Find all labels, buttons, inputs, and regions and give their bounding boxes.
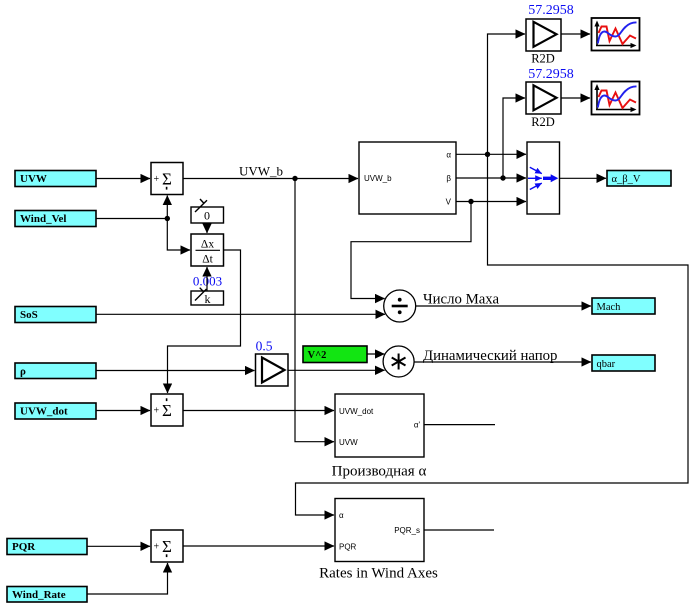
outport tag qbar <box>592 355 655 371</box>
wire alpha-dot open end <box>424 424 495 426</box>
inport tag SoS <box>15 307 96 323</box>
svg-text:qbar: qbar <box>597 359 616 370</box>
svg-text:α_β_V: α_β_V <box>612 174 641 185</box>
svg-text:Δt: Δt <box>202 254 213 266</box>
wire DxDt to Sum2 top <box>168 250 241 393</box>
svg-text:ρ: ρ <box>20 366 26 378</box>
svg-text:UVW_dot: UVW_dot <box>20 406 68 418</box>
wire UVW_dot to Sum2 <box>96 410 150 412</box>
svg-text:Rates in Wind Axes: Rates in Wind Axes <box>319 566 438 582</box>
svg-text:V^2: V^2 <box>308 350 327 361</box>
wire product to qbar <box>414 361 591 363</box>
wire rho to gain 0.5 <box>96 370 255 372</box>
svg-text:Wind_Vel: Wind_Vel <box>20 213 66 225</box>
wire Wind_Vel trunk <box>96 218 167 220</box>
svg-text:UVW_b: UVW_b <box>364 174 392 183</box>
wire SoS to divide <box>96 313 385 315</box>
svg-text:57.2958: 57.2958 <box>528 67 574 82</box>
from tag V^2 <box>303 346 367 363</box>
svg-text:Σ: Σ <box>162 170 172 189</box>
inport tag UVW_dot <box>15 403 96 419</box>
wire k to DxDt <box>206 267 208 291</box>
svg-text:k: k <box>205 292 211 306</box>
inport tag PQR <box>7 539 87 555</box>
svg-text:β: β <box>446 174 451 183</box>
wire Sum1 to UVW_b subsystem <box>183 178 358 180</box>
inport tag Wind_Vel <box>15 211 96 227</box>
svg-text:UVW_b: UVW_b <box>239 164 283 179</box>
wire gain1 to scope1 <box>561 33 590 35</box>
svg-text:0: 0 <box>204 208 210 222</box>
svg-text:α: α <box>339 511 344 520</box>
subsystem Derivative (Proizvodnaya alpha) <box>335 394 424 457</box>
wire IC to DxDt <box>206 223 208 233</box>
svg-text:0.5: 0.5 <box>256 339 273 354</box>
slider gain block k <box>191 288 224 306</box>
svg-text:57.2958: 57.2958 <box>528 3 574 18</box>
svg-text:Wind_Rate: Wind_Rate <box>12 589 66 601</box>
inport tag UVW <box>15 171 96 187</box>
junction beta <box>500 175 505 180</box>
inport tag rho <box>15 363 96 379</box>
subsystem UVW_b <box>359 142 456 214</box>
wire beta out to mux <box>456 177 526 179</box>
inport tag Wind_Rate <box>7 587 87 603</box>
wire alpha long route to Rates subsystem <box>296 154 689 515</box>
junction alpha <box>485 152 490 157</box>
wire V branch to divide <box>351 202 471 299</box>
wire Sum2 to Derivative subsystem <box>183 410 334 412</box>
svg-text:Σ: Σ <box>162 537 172 556</box>
gain R2D bottom <box>526 82 561 114</box>
subsystem Rates in Wind Axes <box>335 499 424 562</box>
svg-text:PQR: PQR <box>339 542 357 551</box>
svg-text:V: V <box>446 198 452 207</box>
svg-text:Mach: Mach <box>597 302 622 313</box>
wire UVW_b branch to Derivative subsystem UVW input <box>295 179 334 442</box>
wire mux to outport <box>560 177 607 179</box>
sum block Sum3 <box>151 530 183 562</box>
svg-text:R2D: R2D <box>531 52 555 66</box>
sum block Sum1 <box>151 163 183 195</box>
wire Sum3 to Rates subsystem <box>183 545 334 547</box>
svg-text:Σ: Σ <box>162 401 172 420</box>
svg-text:Число Маха: Число Маха <box>423 292 500 308</box>
svg-text:UVW_dot: UVW_dot <box>339 407 374 416</box>
svg-text:Δx: Δx <box>201 238 214 250</box>
sum block Sum2 <box>151 394 183 426</box>
wire gain2 to scope2 <box>561 97 590 99</box>
wire UVW to Sum1 <box>96 178 150 180</box>
wire divide to Mach <box>416 305 591 307</box>
junction V <box>468 199 473 204</box>
junction UVW_b <box>292 176 297 181</box>
outport tag alpha_beta_V <box>607 171 671 187</box>
wire Wind_Vel to DxDt <box>167 219 190 251</box>
wire gain 0.5 to product <box>288 369 385 371</box>
wire beta up to R2D gain2 <box>503 98 525 178</box>
svg-text:α': α' <box>414 421 421 430</box>
wire Wind_Vel to Sum1 bottom <box>166 196 168 219</box>
svg-text:+: + <box>154 406 160 417</box>
outport tag Mach <box>592 298 655 314</box>
svg-text:Производная α: Производная α <box>332 464 427 480</box>
wire V out to mux <box>456 201 526 203</box>
wire PQR to Sum3 <box>87 545 150 547</box>
svg-text:PQR_s: PQR_s <box>394 526 420 535</box>
svg-text:+: + <box>154 542 160 553</box>
divide block <box>384 290 416 322</box>
svg-text:R2D: R2D <box>531 115 555 129</box>
wire PQR_s open end <box>424 529 494 531</box>
svg-text:+: + <box>154 174 160 185</box>
svg-text:UVW: UVW <box>339 438 358 447</box>
svg-text:α: α <box>446 150 451 159</box>
wire alpha out to mux <box>456 153 526 155</box>
wire V^2 to product <box>367 353 384 355</box>
product block <box>383 346 414 377</box>
wire Wind_Rate to Sum3 bottom <box>87 563 168 594</box>
svg-text:SoS: SoS <box>20 309 38 321</box>
mux block <box>527 142 560 214</box>
svg-text:PQR: PQR <box>12 541 36 553</box>
svg-text:UVW: UVW <box>20 173 47 185</box>
scope Scope2 <box>592 82 640 115</box>
IC block 0 <box>191 199 224 223</box>
gain R2D top <box>526 19 561 51</box>
gain 0.5 <box>256 354 289 386</box>
junction Wind_Vel <box>165 216 170 221</box>
wire alpha up to R2D gain1 <box>488 34 526 154</box>
scope Scope1 <box>592 18 640 51</box>
derivative block DxDt <box>191 234 224 266</box>
